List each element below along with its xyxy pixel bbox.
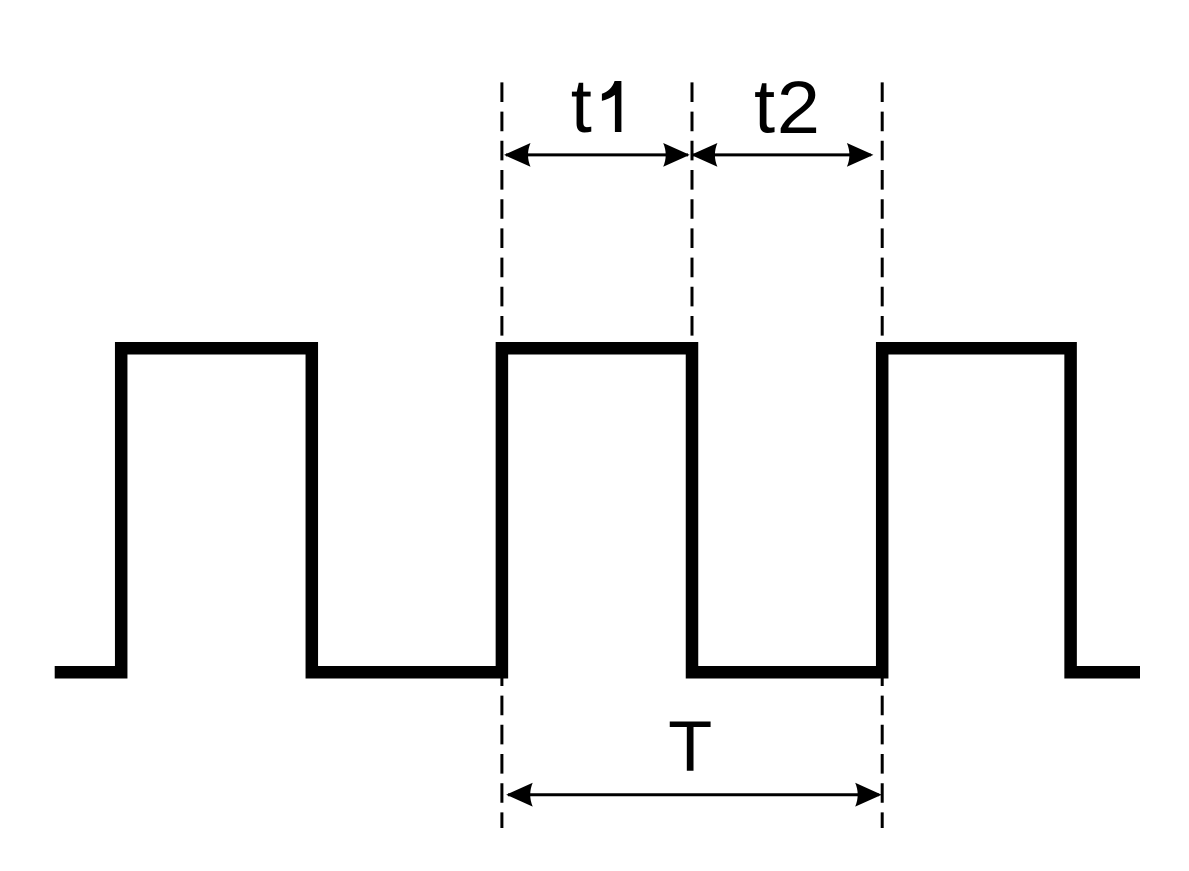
dashed guide line at rising edge of pulse 2: [500, 82, 503, 828]
square wave: [55, 348, 1140, 672]
label t1: [571, 64, 622, 149]
svg-text:T: T: [668, 707, 712, 787]
svg-text:t: t: [571, 64, 592, 149]
T dimension arrow line: [508, 793, 879, 796]
t1 right arrowhead: [663, 143, 690, 167]
t2 right arrowhead: [847, 143, 874, 167]
t1 dimension arrow line: [506, 153, 688, 156]
dashed guide line at rising edge of pulse 3: [881, 82, 884, 828]
label T: [668, 707, 712, 787]
t2 dimension arrow line: [693, 153, 871, 156]
T left arrowhead: [506, 783, 533, 807]
dashed guide line at falling edge of pulse 2: [691, 82, 694, 672]
svg-text:t: t: [754, 64, 775, 149]
svg-text:2: 2: [777, 67, 820, 150]
T right arrowhead: [855, 783, 882, 807]
label t2: [754, 64, 820, 149]
t1 left arrowhead: [504, 143, 531, 167]
t2 left arrowhead: [691, 143, 718, 167]
